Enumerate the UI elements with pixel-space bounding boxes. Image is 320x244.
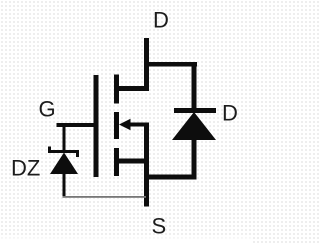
wire drain branch to diode cathode [144,62,197,67]
transistor Q1 channel bottom segment [114,148,119,176]
zener DZ anode triangle [50,153,78,175]
transistor Q1 body arrow [119,119,149,131]
diode D anode triangle [172,112,216,140]
transistor Q1 source stub [114,159,149,164]
svg-text:D: D [153,8,169,33]
transistor Q1 channel middle segment [114,112,119,139]
zener DZ cathode bar [50,147,78,158]
wire zener cathode vertical [63,127,66,150]
wire diode cathode vertical [192,62,197,109]
svg-text:S: S [152,214,167,239]
wire gate horizontal [57,123,99,127]
wire source branch to diode anode [144,175,197,180]
svg-text:D: D [222,101,238,126]
transistor Q1 gate bar [94,75,99,177]
diode D cathode bar [174,108,216,113]
wire zener anode vertical [63,174,66,197]
transistor Q1 channel top segment [114,75,119,104]
wire zener anode to source (thin) [63,196,147,198]
wire drain vertical [144,38,149,91]
wire source vertical [144,123,149,207]
svg-text:G: G [39,97,56,122]
svg-text:DZ: DZ [11,156,40,181]
transistor Q1 drain stub [114,86,149,91]
wire diode anode vertical [192,140,197,180]
